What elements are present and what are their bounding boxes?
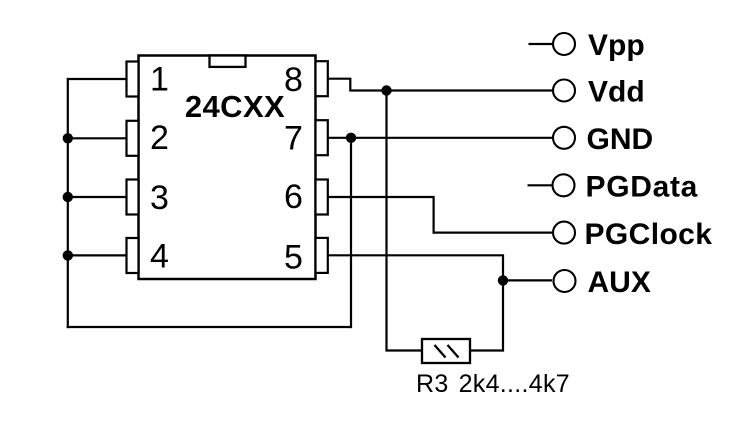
wire Vdd riser to resistor [387,91,423,351]
wire pin1 to left bus [68,78,127,80]
wire pin3 to left bus [68,196,127,198]
svg-text:2: 2 [150,119,169,157]
resistor R3 slash marks [435,345,459,358]
terminal pad AUX [554,270,576,292]
wire Vpp stub [529,43,553,45]
IC U1 24CXX body [139,56,316,280]
resistor R3 body [422,339,470,363]
terminal pad Vdd [553,80,575,102]
terminal pad PGData [553,174,575,196]
wire left bus vertical [67,78,69,328]
pin 5 box [316,238,328,273]
wire ground riser to pin7 net [350,138,352,328]
svg-text:7: 7 [284,120,303,158]
svg-text:Vdd: Vdd [588,76,645,109]
svg-text:PGData: PGData [586,170,699,203]
wire pin6 to PGClock [328,197,552,233]
wire pin4 to left bus [68,254,127,256]
terminal pad GND [553,127,575,149]
svg-text:24CXX: 24CXX [185,89,285,124]
junction dot pin2 bus [63,133,73,143]
svg-text:8: 8 [284,61,303,99]
wire PGData stub [528,184,553,186]
svg-text:Vpp: Vpp [588,29,645,62]
svg-text:6: 6 [284,178,303,216]
junction dot Vdd net [381,85,391,95]
svg-text:4: 4 [150,237,169,275]
wire AUX node to AUX pad [503,279,552,281]
svg-text:3: 3 [150,179,169,217]
svg-text:PGClock: PGClock [585,218,713,251]
svg-text:5: 5 [284,239,303,277]
terminal pad PGClock [553,222,575,244]
wire pin8 to Vdd [328,79,552,91]
pin 8 box [316,61,328,96]
pin 3 box [127,180,139,215]
terminal pad Vpp [553,33,575,55]
junction dot pin3 bus [63,192,73,202]
pin 2 box [127,121,139,156]
svg-text:R3 2k4....4k7: R3 2k4....4k7 [416,370,570,398]
wire bottom ground run [67,326,351,328]
svg-text:GND: GND [587,123,654,156]
wire pin5 to AUX node [328,255,503,280]
wire resistor to AUX node riser [470,280,503,350]
pin 4 box [127,238,139,273]
pin 6 box [316,180,328,215]
svg-text:AUX: AUX [588,266,651,299]
pin 1 box [127,62,139,97]
junction dot AUX node [498,275,508,285]
junction dot pin4 bus [63,250,73,260]
wire pin7 to GND [328,137,552,139]
IC notch mark [210,56,246,67]
pin 7 box [316,120,328,155]
junction dot GND net [346,133,356,143]
wire pin2 to left bus [68,137,127,139]
svg-text:1: 1 [150,61,169,99]
